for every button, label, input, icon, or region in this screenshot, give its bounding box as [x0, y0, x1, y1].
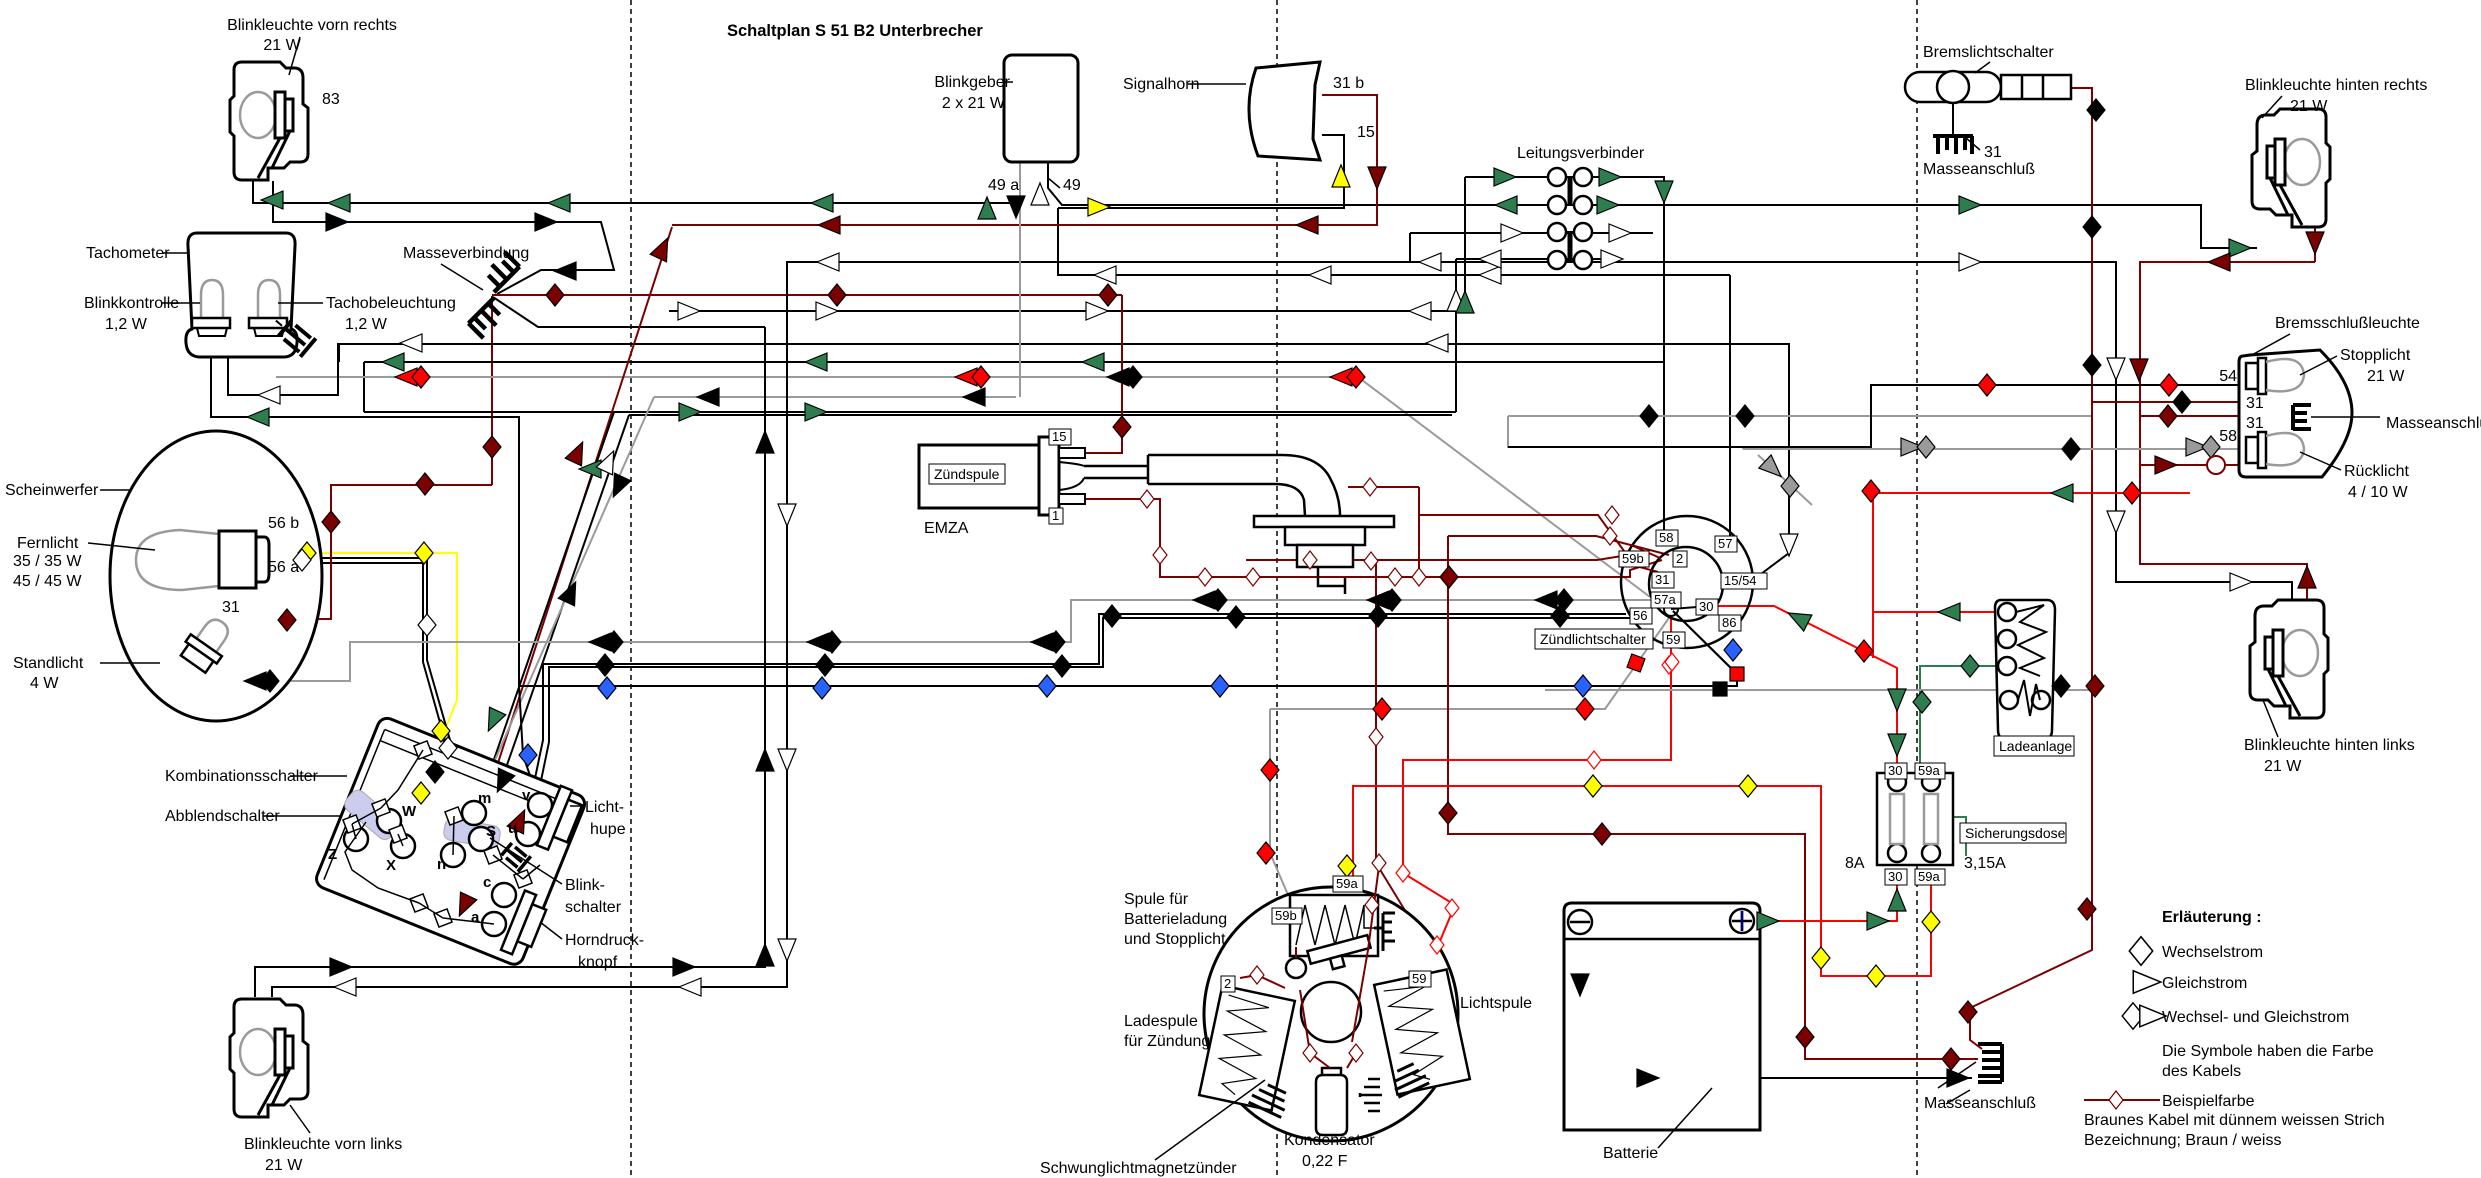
diamond white 56a c [439, 737, 457, 759]
tacho ground symbol [268, 311, 316, 356]
svg-text:2 x 21 W: 2 x 21 W [942, 95, 1006, 112]
arrow green conn r2 a [1495, 196, 1517, 214]
diamond open 583 a [1198, 568, 1212, 586]
arrow white tacho 395 [258, 386, 280, 404]
arrow black V1 up2 [756, 749, 774, 771]
leader blinkleuchte vr [289, 37, 300, 75]
diamond gray diag b [1781, 475, 1799, 497]
svg-text:Bremsschlußleuchte: Bremsschlußleuchte [2275, 315, 2420, 332]
diamond maroon 1448a [1440, 566, 1458, 588]
diamond maroon hl c [416, 473, 434, 495]
wire red ladeanlage [1872, 493, 1874, 658]
box ladeanlage [1994, 736, 2074, 756]
svg-text:Horndruck-: Horndruck- [565, 932, 644, 949]
diamond gray 447 [2202, 436, 2220, 458]
arrow white V2 d2 [778, 749, 796, 771]
svg-text:Batterieladung: Batterieladung [1124, 911, 1227, 928]
svg-text:3,15A: 3,15A [1964, 855, 2006, 872]
diamond open 583 c [1246, 568, 1260, 586]
arrow black ground l [554, 262, 576, 280]
legend sample wire [2084, 1099, 2160, 1101]
diamond yellow 59a [1338, 855, 1356, 877]
diamond red 377 a2 [412, 366, 430, 388]
switch terminal v [528, 793, 552, 817]
svg-text:31: 31 [2246, 415, 2264, 432]
box fuse 30 top [1885, 763, 1907, 779]
arrow maroon 2315 down [2306, 232, 2324, 254]
arrow green battery r2 [1867, 912, 1889, 930]
svg-text:Schaltplan S 51 B2 Unterbrech: Schaltplan S 51 B2 Unterbrecher [727, 22, 983, 40]
leader blinkschalter [490, 838, 562, 884]
arrow green battery r1 [1757, 912, 1779, 930]
wire maroon bremslicht drop [1970, 88, 2092, 1049]
arrow yellow 15 r [1088, 198, 1110, 216]
arrow red 377 a1 [395, 368, 417, 386]
svg-text:1,2 W: 1,2 W [105, 316, 148, 333]
wire red 59 wire [1403, 618, 1671, 965]
box term 57 [1715, 536, 1737, 552]
svg-text:Masseanschluß: Masseanschluß [1924, 1095, 2036, 1112]
box 1 coil [1049, 508, 1063, 524]
headlamp socket [219, 531, 269, 588]
svg-text:Bremslichtschalter: Bremslichtschalter [1923, 44, 2054, 61]
zuendlichtschalter spokes [1631, 545, 1697, 609]
leader kombinationsschalter [290, 775, 347, 777]
signalhorn body [1249, 62, 1320, 160]
svg-text:Blink-: Blink- [565, 877, 605, 894]
svg-text:Tachobeleuchtung: Tachobeleuchtung [326, 295, 456, 312]
arrow black 397 b [963, 388, 985, 406]
svg-text:1: 1 [1052, 508, 1059, 523]
svg-text:hupe: hupe [590, 821, 626, 838]
svg-text:u: u [508, 820, 517, 837]
arrow maroon diag mid [565, 438, 591, 466]
arrow white 343 a [400, 334, 422, 352]
box term 56 [1630, 608, 1652, 624]
wire zuendspule 1 [1085, 499, 1662, 577]
diamond maroon bls f [1959, 1001, 1977, 1023]
leitungsverbinder pair 2 [1548, 223, 1592, 269]
box term 57a [1651, 592, 1681, 608]
wire blue v-wire [519, 611, 1737, 805]
magneto left comb [1249, 1080, 1292, 1117]
arrow green tacho 417 [247, 408, 269, 426]
svg-text:Blinkleuchte hinten rechts: Blinkleuchte hinten rechts [2245, 77, 2427, 94]
svg-text:Masseanschluß: Masseanschluß [2386, 415, 2481, 432]
svg-text:Wechselstrom: Wechselstrom [2162, 944, 2263, 961]
leader signalhorn [1188, 83, 1246, 85]
svg-text:56 a: 56 a [268, 559, 299, 576]
svg-text:v: v [522, 787, 531, 804]
svg-text:45 / 45 W: 45 / 45 W [13, 573, 82, 590]
wire maroon 31b tail [2140, 416, 2293, 437]
magneto condenser [1316, 1068, 1347, 1135]
diamond maroon 31 a [546, 284, 564, 306]
wire white 56a pair2 [268, 563, 446, 744]
magneto lichtspule [1374, 970, 1470, 1095]
wire maroon x1419 [1418, 487, 1420, 577]
standlicht bulb [178, 611, 238, 675]
diamond maroon 15 [1113, 416, 1131, 438]
arrow black 642 b [807, 633, 829, 651]
wire 49a front-right blinker to relay [253, 181, 1016, 203]
diamond green lade a [1961, 655, 1979, 677]
diamond maroon 1059 [1942, 1048, 1960, 1070]
arrow white 343 b [1426, 334, 1448, 352]
wire front-right blinker ground [273, 181, 614, 294]
svg-text:4 W: 4 W [30, 675, 59, 692]
box term 59b [1619, 551, 1649, 567]
wire maroon y262 [2140, 262, 2315, 645]
circle ruecklicht [2207, 456, 2225, 474]
arrow white 311 a [678, 302, 700, 320]
diamond black 612 c [1369, 605, 1387, 627]
diamond black lade [2052, 675, 2070, 697]
leader blinkgeber [1003, 81, 1013, 83]
box term 58 [1656, 530, 1678, 546]
diamond open coil1 [1140, 490, 1154, 508]
box fuse 30 bot [1885, 869, 1907, 885]
arrow yellow 15 up [1332, 165, 1350, 187]
svg-text:m: m [478, 790, 491, 807]
svg-text:Licht-: Licht- [585, 799, 624, 816]
diamond yellow diag b [412, 782, 430, 804]
diamond black 612 b2 [1227, 606, 1245, 628]
spark plug cable [1084, 455, 1340, 516]
switch terminal S [469, 827, 493, 851]
wire tacho blinkkontrolle lamp [228, 334, 338, 395]
leader scheinwerfer [100, 489, 130, 491]
switch horn button [501, 890, 550, 959]
arrow maroon diag low [507, 806, 533, 834]
arrow black 642 l [589, 633, 611, 651]
arrow gray diag a [1759, 455, 1787, 483]
svg-text:Blinkleuchte vorn links: Blinkleuchte vorn links [244, 1136, 402, 1153]
arrow gray 447 a [2186, 438, 2208, 456]
svg-text:83: 83 [322, 91, 340, 108]
diamond open 536 [1603, 527, 1617, 545]
arrow green 30 v1 [1888, 689, 1906, 711]
arrow white 49 up [1031, 183, 1049, 205]
svg-text:Braunes Kabel mit dünnem weiss: Braunes Kabel mit dünnem weissen Strich [2084, 1112, 2385, 1129]
diamond black 595 a2 [1209, 589, 1227, 611]
leader tachometer [163, 252, 187, 254]
svg-text:a: a [471, 909, 480, 926]
diamond blue 686 c [1038, 675, 1056, 697]
ladeanlage body [1995, 600, 2055, 740]
wire 57 terminal riser [1729, 275, 1731, 536]
box mag 2 [1221, 976, 1235, 992]
arrow green 49 r1 [1959, 196, 1981, 214]
arrow green diag [579, 460, 601, 478]
svg-text:15: 15 [1052, 429, 1066, 444]
svg-text:Blinkkontrolle: Blinkkontrolle [84, 295, 179, 312]
diamond black 595 b2 [1555, 589, 1573, 611]
arrow green diag down [480, 707, 506, 735]
box term 31 [1652, 572, 1674, 588]
arrow maroon a-term [451, 892, 477, 920]
arrow white 1554 down [1780, 534, 1798, 556]
wire 15 horn feed [1058, 135, 1730, 275]
svg-text:Zündspule: Zündspule [934, 466, 1000, 482]
svg-text:15/54: 15/54 [1724, 573, 1757, 588]
svg-text:57a: 57a [1654, 592, 1676, 607]
svg-text:Schwunglichtmagnetzünder: Schwunglichtmagnetzünder [1040, 1160, 1237, 1177]
svg-text:c: c [483, 874, 491, 891]
wire maroon switch diagonal [460, 227, 672, 922]
wire maroon rear-right blinker return [2308, 168, 2315, 262]
diamond black 612 d [1551, 605, 1569, 627]
diamond black 377 pair [1124, 366, 1142, 388]
wire maroon 31a stub [2261, 390, 2263, 402]
diamond red 59 open d [1445, 899, 1459, 917]
square red 57a [1730, 667, 1744, 681]
diamond open 583 b [1388, 568, 1402, 586]
svg-text:Signalhorn: Signalhorn [1123, 76, 1200, 93]
arrow green lade [1938, 603, 1960, 621]
svg-text:Beispielfarbe: Beispielfarbe [2162, 1093, 2255, 1110]
diamond black bls a [2087, 99, 2105, 121]
box term 86 [1719, 615, 1741, 631]
svg-text:21 W: 21 W [263, 37, 301, 54]
svg-text:21 W: 21 W [2367, 368, 2405, 385]
wire white switch diagonal a [480, 412, 614, 830]
diamond yellow 1821 [1812, 947, 1830, 969]
leader batterie [1658, 1088, 1712, 1148]
masseverbindung ground symbol [451, 252, 537, 338]
svg-text:31: 31 [2246, 395, 2264, 412]
dashed separator 3 [1916, 0, 1918, 1178]
arrow white 311 c [1086, 302, 1108, 320]
svg-text:59b: 59b [1275, 908, 1297, 923]
arrow black diag down [489, 768, 515, 796]
arrow white conn r4 a [1479, 250, 1501, 268]
wire maroon y536 to 2 [1448, 536, 1669, 555]
arrow black 642 c [1031, 633, 1053, 651]
arrow green 412 a [679, 403, 701, 421]
diamond red 385 b [2160, 374, 2178, 396]
leader blinkleuchte vl [290, 1105, 310, 1133]
diamond yellow 1931 [1922, 911, 1940, 933]
svg-text:Masseanschluß: Masseanschluß [1923, 161, 2035, 178]
wire gray 49a vertical [1019, 163, 1021, 397]
arrow white diag up [596, 447, 622, 475]
svg-text:59a: 59a [1336, 876, 1358, 891]
switch terminal X [391, 834, 415, 858]
arrow black diag r [605, 473, 631, 501]
svg-text:Lichtspule: Lichtspule [1460, 995, 1532, 1012]
box term 59 [1663, 632, 1685, 648]
svg-text:Blinkleuchte vorn rechts: Blinkleuchte vorn rechts [227, 17, 397, 34]
svg-text:59a: 59a [1918, 763, 1940, 778]
svg-text:Bezeichnung; Braun / weiss: Bezeichnung; Braun / weiss [2084, 1132, 2281, 1149]
diamond green lade b [1913, 691, 1931, 713]
arrow white 987 b [679, 978, 701, 996]
arrow white 275 c [1479, 266, 1501, 284]
diamond open mag 2 [1250, 966, 1264, 984]
arrow maroon 31b l2 [1296, 216, 1318, 234]
box sicherungsdose [1960, 823, 2066, 843]
diamond maroon 416 [2159, 405, 2177, 427]
wire front-left blinker feed [255, 327, 765, 997]
leader abblendschalter [263, 815, 341, 817]
diamond blue 686 a [598, 677, 616, 699]
arrow black 377 pair [1107, 368, 1129, 386]
square red 59 [1627, 654, 1645, 672]
wire gray 59b drop [1270, 615, 1671, 918]
svg-text:Kombinationsschalter: Kombinationsschalter [165, 768, 319, 785]
switch pad 2 [443, 817, 502, 848]
svg-text:49: 49 [1063, 177, 1081, 194]
legend wechselstrom diamond [2129, 937, 2152, 966]
diamond white 56a b [418, 614, 436, 636]
svg-text:1,2 W: 1,2 W [345, 316, 388, 333]
wire red ladeanlage h [1873, 611, 2003, 613]
svg-text:0,22 F: 0,22 F [1302, 1153, 1348, 1170]
wire battery minus ground [1580, 933, 1972, 1078]
leader bremsschlussleuchte [2250, 334, 2290, 356]
svg-text:Stopplicht: Stopplicht [2340, 347, 2411, 364]
tail stop bulb [2246, 358, 2304, 394]
diamond yellow diag a [432, 720, 450, 742]
box fuse 59a top [1915, 763, 1945, 779]
wire red 30 feed [1714, 606, 1897, 773]
svg-text:n: n [437, 856, 446, 873]
diamond red y493 [2123, 482, 2141, 504]
tail light housing [2239, 350, 2352, 477]
arrow black 222 r [326, 213, 348, 231]
arrow maroon 465 [2155, 456, 2177, 474]
svg-text:31 b: 31 b [1333, 75, 1364, 92]
svg-text:Tachometer: Tachometer [86, 245, 170, 262]
arrow black 681 l [244, 672, 266, 690]
wire maroon magneto 2-feed [1246, 556, 1622, 560]
arrow white V2 d3 [778, 939, 796, 961]
svg-text:59a: 59a [1918, 869, 1940, 884]
box 15 coil [1049, 429, 1071, 445]
diamond yellow 56b b [415, 542, 433, 564]
svg-text:und Stopplicht: und Stopplicht [1124, 931, 1226, 948]
switch terminal n [441, 843, 465, 867]
dashed separator 2 [1276, 0, 1278, 1178]
arrow maroon 2140 down [2130, 359, 2148, 381]
switch ground [500, 841, 530, 871]
tail masseanschluss comb [2293, 405, 2380, 430]
kombischalter body [314, 715, 588, 967]
wire connector row1 drop [1464, 177, 1466, 311]
arrow black 967 a [330, 958, 352, 976]
diamond maroon bls d [2086, 675, 2104, 697]
diamond red 385 a [1978, 374, 1996, 396]
svg-text:21 W: 21 W [2264, 758, 2302, 775]
wire white 56a pair1 [268, 558, 462, 790]
diamond red 30 diag [1855, 640, 1873, 662]
diamond black 402 [2173, 391, 2191, 413]
svg-text:Zündlichtschalter: Zündlichtschalter [1540, 631, 1646, 647]
wire maroon magneto riser [1375, 560, 1377, 737]
svg-text:2: 2 [1676, 551, 1683, 566]
wire ground link diagonal [493, 297, 765, 327]
arrow green conn r2 b [1597, 196, 1619, 214]
arrow maroon 31b down [1368, 167, 1386, 189]
svg-text:15: 15 [1357, 124, 1375, 141]
diamond open mag a [1303, 1044, 1317, 1062]
arrow green 30 diag [1784, 605, 1812, 631]
arrow green L1 b [328, 194, 350, 212]
svg-text:S: S [486, 823, 496, 840]
diamond blue 686 d [1211, 675, 1229, 697]
tachometer body [186, 233, 297, 357]
diamond red 59 open c [1396, 864, 1410, 882]
lamp Blinkleuchte hinten links [2250, 600, 2328, 718]
svg-text:Masseverbindung: Masseverbindung [403, 245, 529, 262]
magneto circle [1204, 887, 1458, 1141]
wire black bus y343 [339, 343, 1789, 345]
arrow white V2 d1 [778, 504, 796, 526]
svg-text:Standlicht: Standlicht [13, 655, 84, 672]
wire maroon 31 headlight [240, 485, 492, 619]
svg-text:Die Symbole haben die Farbe: Die Symbole haben die Farbe [2162, 1043, 2374, 1060]
switch terminal c [492, 883, 516, 907]
magneto charge coil box [1290, 895, 1378, 956]
wire black switch diag [1673, 611, 1737, 674]
diamond yellow 976 [1867, 965, 1885, 987]
magneto inner wires [1240, 866, 1379, 1068]
arrow green 49 r2 [2229, 239, 2251, 257]
arrow red 377 b1 [955, 368, 977, 386]
diamond maroon bls e [2078, 898, 2096, 920]
wire 49 relay to rear-right blinker [1048, 163, 2257, 248]
diamond black 595 c2 [1383, 589, 1401, 611]
wire gray diag stub [1758, 455, 1812, 505]
arrow black battery r2 [1947, 1069, 1969, 1087]
diamond black 681 [261, 670, 279, 692]
leader blinkkontrolle [162, 302, 200, 304]
arrow green L1 d [811, 194, 833, 212]
wire maroon 31a tail [2092, 401, 2258, 403]
diamond black 447 [2062, 438, 2080, 460]
diamond yellow 56b a [298, 542, 316, 564]
diamond open 515 [1605, 506, 1619, 524]
arrow green 361 c [1082, 353, 1104, 371]
svg-text:Erläuterung :: Erläuterung : [2162, 909, 2262, 926]
leader horndruck [540, 922, 562, 939]
svg-text:56: 56 [1633, 608, 1647, 623]
arrow maroon diag up [650, 234, 676, 262]
wire connector row1 [1465, 177, 1664, 530]
box mag 59a [1333, 876, 1363, 892]
diamond open 487 [1363, 478, 1377, 496]
switch inner wires [345, 750, 540, 924]
wire maroon 31 bus [492, 294, 1122, 296]
wire maroon magneto entry [1376, 737, 1420, 935]
arrow black 49a down [1007, 196, 1025, 218]
wire zuendspule 15 [1085, 295, 1122, 453]
leader bremslichtschalter [1975, 62, 1990, 73]
svg-text:8A: 8A [1845, 855, 1865, 872]
diamond red lade [1862, 480, 1880, 502]
diamond red 377 c2 [1347, 366, 1365, 388]
diamond black 664 a [596, 654, 614, 676]
arrow black 222 r2 [535, 213, 557, 231]
diamond maroon hl a [278, 609, 296, 631]
diamond red 59 open a [1665, 653, 1679, 671]
svg-text:4 / 10 W: 4 / 10 W [2348, 484, 2408, 501]
arrow white 582 r [2230, 573, 2252, 591]
svg-text:21 W: 21 W [2290, 98, 2328, 115]
wire connector row4 [1456, 258, 1620, 260]
svg-text:49 a: 49 a [988, 177, 1019, 194]
